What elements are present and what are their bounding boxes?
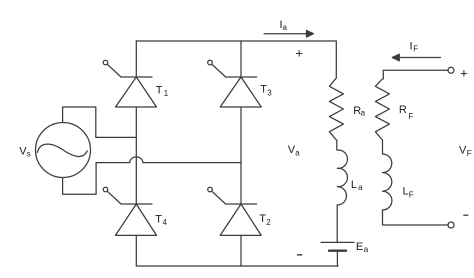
wire bottom rail <box>136 265 338 267</box>
label minus Va <box>297 254 301 256</box>
wire right branch middle (T3 anode to T2 cathode) <box>240 107 242 204</box>
svg-text:F: F <box>413 45 418 54</box>
wire La to Ea <box>336 205 338 242</box>
svg-text:T: T <box>155 214 162 226</box>
svg-text:F: F <box>408 112 413 121</box>
svg-text:2: 2 <box>266 218 271 227</box>
thyristor T2 <box>208 187 262 235</box>
resistor RF <box>375 79 389 140</box>
svg-text:a: a <box>364 245 369 254</box>
wire left branch middle (T1 anode to T4 cathode) <box>135 107 137 204</box>
wire field branch top <box>383 70 448 79</box>
wire Ra to La <box>336 140 338 150</box>
thyristor T3 <box>208 60 262 107</box>
svg-text:L: L <box>351 179 357 191</box>
svg-text:E: E <box>356 241 363 253</box>
AC source Vs <box>36 123 91 178</box>
svg-text:T: T <box>156 84 163 96</box>
svg-text:L: L <box>403 186 409 198</box>
inductor LF <box>383 154 392 210</box>
wire top rail <box>136 40 336 42</box>
svg-text:R: R <box>399 104 407 116</box>
svg-text:1: 1 <box>164 89 169 98</box>
wire right branch top (rail to T3 cathode) <box>240 41 242 77</box>
svg-text:a: a <box>361 108 366 117</box>
svg-text:4: 4 <box>163 218 168 227</box>
svg-text:a: a <box>358 183 363 192</box>
svg-text:+: + <box>295 45 303 60</box>
wire armature branch top (rail corner down to Ra) <box>335 41 337 78</box>
svg-text:+: + <box>460 65 468 80</box>
current arrow Ia <box>264 30 314 37</box>
inductor La <box>337 150 347 205</box>
wire source bottom terminal to right branch (hops over left branch) <box>63 157 241 194</box>
wire source top terminal to left branch <box>63 107 137 137</box>
wire left branch bottom (T4 anode to bottom rail) <box>135 235 137 266</box>
label minus VF <box>464 214 468 216</box>
wire field branch bottom <box>383 210 449 225</box>
svg-text:I: I <box>410 41 413 53</box>
resistor Ra <box>329 78 343 140</box>
thyristor T4 <box>103 187 156 235</box>
wire right branch bottom (T2 anode to bottom rail) <box>240 235 242 266</box>
wire left branch top (rail to T1 cathode) <box>135 41 137 77</box>
wire RF to LF <box>382 140 384 154</box>
svg-text:a: a <box>283 23 288 32</box>
svg-text:3: 3 <box>267 88 272 97</box>
terminal field positive <box>448 67 454 73</box>
thyristor T1 <box>103 60 156 107</box>
current arrow IF <box>392 54 440 61</box>
svg-text:F: F <box>409 191 414 200</box>
battery Ea <box>321 242 354 250</box>
svg-text:a: a <box>295 148 300 157</box>
wire Ea to bottom rail <box>336 251 338 266</box>
svg-text:F: F <box>467 149 472 158</box>
terminal field negative <box>448 222 454 228</box>
svg-text:s: s <box>27 150 31 159</box>
